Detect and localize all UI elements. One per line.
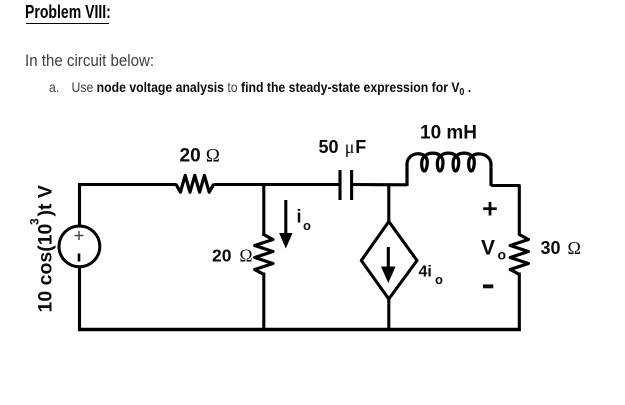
svg-text:20: 20 (180, 146, 201, 167)
title underline (26, 23, 109, 25)
label 30 ohm for R3 (541, 238, 581, 258)
dependent current source 4io diamond (361, 222, 417, 300)
wire top-left horizontal (78, 183, 177, 186)
label 10 cos(10^3)t V rotated (28, 185, 57, 312)
svg-text:10 mH: 10 mH (420, 123, 477, 144)
wire below R2 (262, 273, 265, 332)
svg-text:50: 50 (319, 137, 339, 157)
wire left vertical below source (78, 266, 81, 331)
intro text (25, 52, 154, 69)
svg-text:Ω: Ω (206, 146, 220, 167)
inductor L1 10mH (407, 153, 491, 186)
label 20 ohm for R2 (212, 245, 253, 265)
svg-text:)t V: )t V (35, 185, 57, 216)
label minus for Vo (483, 284, 493, 288)
plus sign inside source (75, 231, 84, 240)
label 20 ohm for R1 (180, 146, 220, 167)
wire capacitor to inductor (353, 183, 407, 186)
capacitor C1 50uF plates (340, 170, 352, 200)
svg-text:o: o (498, 246, 507, 262)
label 10 mH (420, 123, 477, 144)
wire inductor to right corner (491, 186, 519, 236)
wire below R3 (518, 273, 521, 332)
label 50 uF (319, 137, 367, 157)
label plus for Vo (483, 202, 497, 216)
resistor R2 20ohm vertical zigzag (255, 235, 273, 275)
title (25, 3, 111, 21)
resistor R3 30ohm vertical zigzag (510, 235, 528, 275)
svg-text:Ω: Ω (568, 238, 581, 258)
node junction at 20ohm branch (262, 185, 265, 237)
wire top middle to capacitor (214, 183, 339, 186)
wire below dependent source (387, 299, 390, 332)
svg-text:10 cos(10: 10 cos(10 (35, 223, 57, 312)
svg-text:o: o (303, 218, 311, 233)
item a (49, 80, 471, 98)
minus sign inside source (rotated) (78, 254, 81, 262)
arrow inside dependent source (381, 247, 396, 283)
svg-text:μ: μ (345, 137, 355, 157)
wire junction to dependent source (387, 185, 390, 223)
voltage source Vs circle (59, 226, 100, 267)
resistor R1 20ohm horizontal zigzag (176, 175, 214, 192)
svg-text:30: 30 (541, 238, 561, 258)
wire left vertical above source (78, 183, 81, 227)
svg-text:V: V (481, 237, 495, 260)
label 4io (419, 264, 444, 288)
label io (297, 207, 312, 234)
bottom wire (78, 328, 521, 331)
svg-text:20: 20 (212, 245, 232, 265)
svg-text:i: i (297, 207, 302, 227)
svg-text:3: 3 (28, 218, 42, 225)
svg-text:o: o (435, 272, 443, 287)
current arrow io (279, 200, 292, 249)
svg-text:4i: 4i (419, 264, 432, 281)
label Vo (481, 237, 506, 263)
svg-text:F: F (355, 137, 366, 157)
svg-text:Ω: Ω (240, 245, 253, 265)
